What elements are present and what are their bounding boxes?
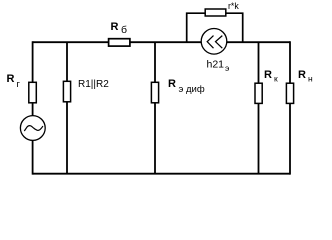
resistor Rг <box>29 82 37 103</box>
resistor Rн <box>286 83 293 103</box>
resistor r*k <box>205 9 226 16</box>
svg-text:н: н <box>308 74 313 84</box>
svg-text:б: б <box>121 24 127 36</box>
current source h21э <box>201 29 227 55</box>
label r*k <box>228 1 239 11</box>
label Rн <box>298 69 313 84</box>
svg-text:к: к <box>274 74 278 84</box>
svg-text:r*k: r*k <box>228 1 239 11</box>
label R1||R2 <box>78 79 109 90</box>
svg-text:э: э <box>225 63 229 73</box>
label Rб <box>111 21 128 36</box>
svg-text:э диф: э диф <box>179 84 205 95</box>
source generator (AC) <box>20 116 45 141</box>
wire: bottom rail from generator to Rн <box>33 173 290 175</box>
wire: feedback loop around current source <box>187 13 243 42</box>
resistor R1||R2 <box>63 81 70 102</box>
svg-text:R: R <box>298 69 306 81</box>
label h21э <box>207 59 230 74</box>
resistor Rэ диф <box>151 82 158 103</box>
svg-text:R1||R2: R1||R2 <box>78 79 109 90</box>
label Rэ диф <box>168 78 205 95</box>
svg-text:R: R <box>111 21 119 33</box>
resistor Rк <box>255 83 262 103</box>
svg-text:R: R <box>264 69 272 81</box>
wire: Rн branch vertical (right edge) <box>289 41 291 174</box>
wire: top rail from Rг to Rн <box>33 41 290 43</box>
wire: generator branch vertical <box>32 41 34 174</box>
svg-text:г: г <box>17 79 21 90</box>
wire: Rк branch vertical <box>258 42 260 174</box>
svg-text:R: R <box>7 73 15 85</box>
svg-text:R: R <box>168 78 176 90</box>
label Rг <box>7 73 21 90</box>
svg-text:h21: h21 <box>207 59 225 71</box>
wire: Rэ диф branch vertical <box>154 42 156 174</box>
label Rк <box>264 69 278 84</box>
resistor Rб <box>109 39 130 46</box>
wire: R1||R2 branch vertical <box>66 42 68 174</box>
